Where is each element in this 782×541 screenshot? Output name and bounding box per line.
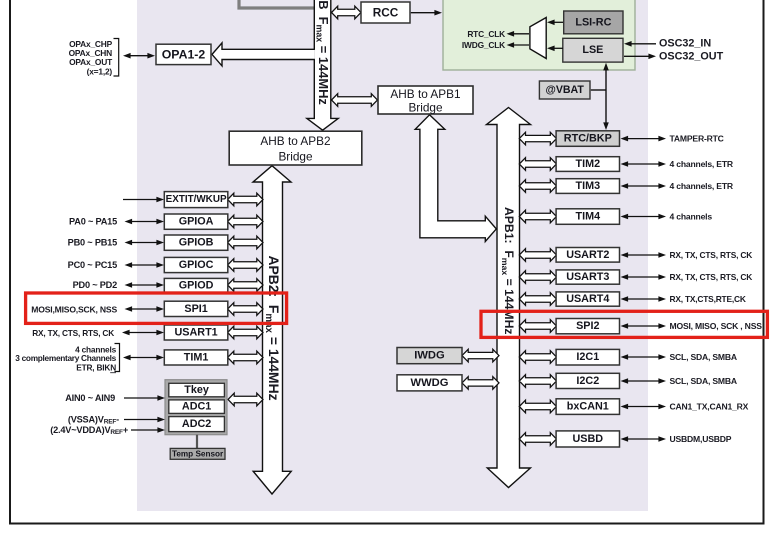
svg-text:RX, TX, CTS, RTS, CK: RX, TX, CTS, RTS, CK <box>670 272 753 282</box>
arrow PC0 ~ PC15 <box>131 264 159 266</box>
arrow mux to RTC_CLK <box>513 33 530 35</box>
block LSE <box>563 38 623 62</box>
arrow pins @439 <box>627 438 661 440</box>
svg-text:OSC32_OUT: OSC32_OUT <box>659 51 724 63</box>
arrow SPI1 pins <box>131 308 159 310</box>
arrow pins @299 <box>627 298 661 300</box>
arrow APB1 bus to TIM3 <box>519 180 556 193</box>
arrow LSE to OSC32_OUT <box>624 55 650 57</box>
block GPIOC <box>164 257 228 272</box>
bus AHB (vertical, Fmax=144MHz) <box>307 0 338 130</box>
svg-text:RX, TX, CTS, RTS, CK: RX, TX, CTS, RTS, CK <box>670 250 753 260</box>
bracket OPA <box>114 39 119 77</box>
arrow TIM1 pins <box>129 357 158 359</box>
arrow pins @138.6 <box>627 138 661 140</box>
arrow APB1 bus to TIM4 <box>519 210 556 223</box>
block TIM4 <box>556 209 619 225</box>
arrow APB1 bus to USBD <box>519 433 556 446</box>
svg-text:Tkey: Tkey <box>184 384 209 396</box>
highlight SPI2 (red box) <box>481 311 767 337</box>
arrow VREF- <box>124 419 159 421</box>
arrow AIN to ADC <box>124 397 159 399</box>
svg-text:USART1: USART1 <box>174 327 217 339</box>
block AHB to APB2 Bridge <box>229 131 362 165</box>
block USART1 <box>164 325 228 340</box>
block USART4 <box>556 292 619 306</box>
mux clock selector <box>530 18 546 59</box>
block GPIOD <box>164 278 228 292</box>
svg-text:SCL, SDA, SMBA: SCL, SDA, SMBA <box>670 352 737 362</box>
arrow pins @216.5 <box>627 216 661 218</box>
svg-text:MOSI,MISO,SCK, NSS: MOSI,MISO,SCK, NSS <box>31 305 117 315</box>
arrow APB1 bus to USART4 <box>519 293 556 306</box>
block group ADC (Tkey/ADC1/ADC2) <box>165 380 227 435</box>
svg-text:ADC1: ADC1 <box>182 401 211 413</box>
svg-text:4 channels, ETR: 4 channels, ETR <box>670 181 734 191</box>
svg-text:(x=1,2): (x=1,2) <box>87 66 113 76</box>
svg-text:EXTIT/WKUP: EXTIT/WKUP <box>166 194 227 205</box>
highlight SPI1 (red box) <box>26 293 287 323</box>
arrow GPIOC to APB2 bus <box>228 259 263 272</box>
block IWDG <box>397 348 462 364</box>
svg-text:PD0 ~ PD2: PD0 ~ PD2 <box>73 280 118 290</box>
arrow GPIOB to APB2 bus <box>228 236 263 249</box>
wire ADC group to Temp Sensor <box>196 435 198 449</box>
svg-text:RTC_CLK: RTC_CLK <box>467 29 505 39</box>
svg-text:4 channels: 4 channels <box>670 212 713 222</box>
block TIM1 <box>164 350 228 365</box>
arrow APB1 bus to USART3 <box>519 271 556 284</box>
arrow OPA pins <box>129 55 149 57</box>
svg-text:SCL, SDA, SMBA: SCL, SDA, SMBA <box>670 376 737 386</box>
svg-text:TAMPER-RTC: TAMPER-RTC <box>670 134 724 144</box>
arrow APB1 bus to USART2 <box>519 249 556 262</box>
svg-text:AHB to APB1: AHB to APB1 <box>390 87 460 101</box>
block Tkey <box>169 383 225 397</box>
arrow TIM1 to APB2 bus <box>228 351 263 364</box>
block bxCAN1 <box>556 399 619 415</box>
block OPA1-2 <box>156 44 211 64</box>
arrow RCC to AHB bus <box>332 6 362 19</box>
svg-text:AHB to APB2: AHB to APB2 <box>260 134 330 148</box>
svg-text:RX, TX,CTS,RTE,CK: RX, TX,CTS,RTE,CK <box>670 294 746 304</box>
svg-text:SPI1: SPI1 <box>184 303 207 315</box>
svg-text:RTC/BKP: RTC/BKP <box>564 133 612 145</box>
bus APB1 (vertical double arrow) <box>487 108 531 488</box>
block GPIOA <box>164 214 228 229</box>
arrow RCC to clock region <box>411 12 436 14</box>
arrow EXTIT/WKUP to APB2 bus <box>228 193 263 206</box>
arrow USART1 pins <box>128 332 158 334</box>
arrow USART1 to APB2 bus <box>228 326 263 339</box>
arrow APB1 bus to RTC/BKP <box>519 132 556 145</box>
svg-text:USART3: USART3 <box>566 271 609 283</box>
arrow PB0 ~ PB15 <box>131 242 159 244</box>
block USART2 <box>556 248 619 263</box>
svg-text:OPA1-2: OPA1-2 <box>162 47 206 61</box>
block Temp Sensor <box>170 448 225 459</box>
arrow PA0 ~ PA15 <box>131 221 159 223</box>
svg-text:GPIOC: GPIOC <box>179 259 214 271</box>
svg-text:Bridge: Bridge <box>408 101 443 115</box>
svg-text:TIM1: TIM1 <box>184 351 209 363</box>
arrow AHB bus to AHB-APB1 bridge <box>332 94 378 107</box>
arrow pins @186 <box>627 185 661 187</box>
svg-text:WWDG: WWDG <box>411 377 449 389</box>
svg-text:GPIOD: GPIOD <box>179 279 214 291</box>
svg-text:GPIOB: GPIOB <box>179 237 214 249</box>
svg-text:TIM4: TIM4 <box>576 211 601 223</box>
svg-text:B Fmax = 144MHz: B Fmax = 144MHz <box>314 0 331 105</box>
svg-text:SPI2: SPI2 <box>576 320 599 332</box>
svg-text:ETR, BIKN: ETR, BIKN <box>76 362 116 372</box>
svg-text:OSC32_IN: OSC32_IN <box>659 37 711 49</box>
svg-text:I2C2: I2C2 <box>576 375 599 387</box>
svg-text:Temp Sensor: Temp Sensor <box>172 449 224 458</box>
arrow pins @357 <box>627 356 661 358</box>
svg-text:AIN0 ~ AIN9: AIN0 ~ AIN9 <box>65 393 115 403</box>
arrow LSI-RC to mux <box>553 21 563 23</box>
svg-text:MOSI, MISO, SCK , NSS: MOSI, MISO, SCK , NSS <box>670 321 763 331</box>
arrow PD0 ~ PD2 <box>131 284 159 286</box>
block I2C2 <box>556 373 619 388</box>
region APB backplane (lavender) <box>137 0 648 511</box>
svg-text:USBD: USBD <box>573 433 604 445</box>
svg-text:CAN1_TX,CAN1_RX: CAN1_TX,CAN1_RX <box>670 402 749 412</box>
svg-text:LSE: LSE <box>582 44 603 56</box>
svg-text:PB0 ~ PB15: PB0 ~ PB15 <box>68 238 117 248</box>
svg-text:@VBAT: @VBAT <box>546 84 585 96</box>
svg-text:ADC2: ADC2 <box>182 418 211 430</box>
svg-text:IWDG: IWDG <box>414 350 445 362</box>
svg-text:TIM2: TIM2 <box>576 158 601 170</box>
arrow GPIOA to APB2 bus <box>228 215 263 228</box>
svg-text:I2C1: I2C1 <box>576 351 599 363</box>
arrow LSE to mux <box>553 47 563 49</box>
block TIM3 <box>556 179 619 194</box>
block RTC/BKP <box>556 131 619 147</box>
block AHB to APB1 Bridge <box>378 86 473 114</box>
svg-text:Bridge: Bridge <box>278 150 313 164</box>
arrow APB1 bus to I2C1 <box>519 351 556 364</box>
svg-text:USART2: USART2 <box>566 249 609 261</box>
svg-text:bxCAN1: bxCAN1 <box>567 401 609 413</box>
arrow pins @164 <box>627 163 661 165</box>
arrow mux to IWDG_CLK <box>513 44 530 46</box>
svg-text:RX, TX, CTS, RTS, CK: RX, TX, CTS, RTS, CK <box>32 328 114 338</box>
wire @VBAT to LSE/RTC vertical <box>591 89 606 91</box>
block EXTIT/WKUP <box>164 192 228 208</box>
arrow APB1 bus to TIM2 <box>519 158 556 171</box>
svg-text:GPIOA: GPIOA <box>179 216 214 228</box>
block GPIOB <box>164 235 228 250</box>
block USART3 <box>556 270 619 284</box>
arrow SPI1 to APB2 bus <box>228 303 263 316</box>
arrow WWDG to APB1 bus <box>462 377 499 390</box>
block SPI2 <box>556 319 619 334</box>
block LSI-RC <box>564 11 623 34</box>
arrow GPIOD to APB2 bus <box>228 279 263 292</box>
block ADC2 <box>169 417 225 432</box>
svg-text:LSI-RC: LSI-RC <box>575 16 611 28</box>
arrow VREF+ <box>131 429 159 431</box>
bracket TIM1 <box>115 344 120 372</box>
arrow pins @381 <box>627 380 661 382</box>
svg-text:4 channels, ETR: 4 channels, ETR <box>670 159 734 169</box>
block SPI1 <box>164 301 228 316</box>
arrow AHB bus to OPA1-2 (thick) <box>212 43 315 66</box>
arrow APB1 bus to bxCAN1 <box>519 400 556 413</box>
arrow pins @277 <box>627 276 661 278</box>
arrow pins @406.5 <box>627 406 661 408</box>
wire to EXTIT/WKUP <box>123 199 158 201</box>
block ADC1 <box>169 400 225 414</box>
block TIM2 <box>556 157 619 172</box>
arrow APB1 bus to I2C2 <box>519 375 556 388</box>
block WWDG <box>397 375 462 391</box>
arrow OSC32_IN to LSE <box>630 43 656 45</box>
bus APB2 (vertical double arrow) <box>253 166 291 494</box>
wire gray top-left to AHB bus <box>239 0 314 8</box>
block @VBAT <box>539 81 590 99</box>
arrow elbow AHB-APB1-bridge to APB1 bus <box>415 115 496 242</box>
svg-text:TIM3: TIM3 <box>576 180 601 192</box>
svg-text:USART4: USART4 <box>566 293 609 305</box>
svg-text:IWDG_CLK: IWDG_CLK <box>462 40 505 50</box>
arrow IWDG to APB1 bus <box>462 349 499 362</box>
arrow ADC group to APB2 bus <box>228 393 263 406</box>
block RCC <box>361 2 410 23</box>
region clock sources (green) <box>443 0 635 70</box>
arrow APB1 bus to SPI2 <box>519 320 556 333</box>
block USBD <box>556 431 619 447</box>
svg-text:PC0 ~ PC15: PC0 ~ PC15 <box>68 260 117 270</box>
svg-text:RCC: RCC <box>373 6 399 20</box>
block I2C1 <box>556 349 619 365</box>
arrow pins @255 <box>627 254 661 256</box>
svg-text:PA0 ~ PA15: PA0 ~ PA15 <box>69 217 117 227</box>
arrow pins @326 <box>627 325 661 327</box>
svg-text:USBDM,USBDP: USBDM,USBDP <box>670 434 732 444</box>
